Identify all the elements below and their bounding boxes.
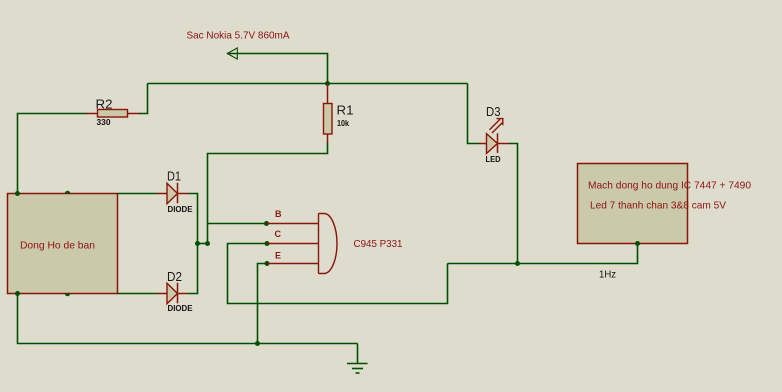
svg-text:D1: D1 bbox=[167, 169, 181, 184]
resistor R2 bbox=[86, 97, 140, 128]
wire R2 left to left rail bbox=[18, 114, 87, 193]
wire bridge to diode column bbox=[198, 243, 208, 245]
ground bbox=[347, 344, 368, 374]
svg-text:B: B bbox=[275, 209, 282, 219]
node B junction bbox=[264, 221, 269, 226]
svg-text:R1: R1 bbox=[337, 103, 354, 118]
node C junction bbox=[265, 241, 270, 246]
node box pin bottom-mid bbox=[65, 294, 70, 297]
wire top rail bbox=[148, 83, 468, 85]
svg-text:10k: 10k bbox=[337, 118, 349, 128]
transistor U1 C945 P331 bbox=[267, 209, 403, 274]
node junction top rail / R1 bbox=[325, 81, 330, 86]
led D3 bbox=[479, 104, 509, 164]
svg-text:Dong Ho de ban: Dong Ho de ban bbox=[20, 240, 95, 252]
wire box to D2 anode bbox=[118, 293, 158, 295]
svg-text:C: C bbox=[275, 229, 282, 239]
node box pin bottom bbox=[635, 241, 640, 246]
svg-text:Mach dong ho dung IC 7447 + 74: Mach dong ho dung IC 7447 + 7490 bbox=[588, 180, 751, 192]
svg-text:Sac Nokia 5.7V 860mA: Sac Nokia 5.7V 860mA bbox=[187, 30, 290, 42]
wire 1Hz net bbox=[448, 244, 638, 264]
resistor R1 bbox=[324, 84, 354, 144]
wire B branch bbox=[208, 223, 267, 225]
subcircuit box Mach dong ho bbox=[578, 164, 752, 244]
svg-text:330: 330 bbox=[97, 117, 111, 127]
wire D3 feed from top rail bbox=[468, 84, 480, 144]
node bridge right bbox=[205, 241, 210, 246]
svg-text:E: E bbox=[275, 251, 281, 261]
svg-text:1Hz: 1Hz bbox=[599, 270, 616, 281]
wire E to bottom rail bbox=[258, 264, 268, 344]
wire C net from gate to rail-303 bbox=[228, 244, 448, 304]
wire arrow to R1 top bbox=[227, 54, 328, 84]
wire D3 cathode down to 1Hz net bbox=[509, 144, 518, 264]
node E junction bbox=[265, 261, 270, 266]
wire box to D1 anode bbox=[118, 193, 158, 195]
svg-text:Led 7 thanh chan 3&8 cam 5V: Led 7 thanh chan 3&8 cam 5V bbox=[590, 200, 726, 212]
diode D1 bbox=[157, 169, 193, 215]
subcircuit box Dong Ho de ban bbox=[8, 194, 118, 294]
svg-text:C945 P331: C945 P331 bbox=[354, 238, 403, 250]
wire left rail bottom bbox=[18, 294, 358, 344]
svg-text:D2: D2 bbox=[167, 269, 182, 284]
wire top rail down to R2 right bbox=[139, 84, 148, 114]
node VCC terminal arrow bbox=[227, 48, 237, 59]
wire D1 cathode down to D2 cathode bbox=[189, 194, 198, 294]
node box pin top-mid bbox=[65, 191, 70, 194]
node box pin top-left bbox=[15, 191, 20, 196]
node box pin bottom-left bbox=[15, 291, 20, 296]
svg-text:R2: R2 bbox=[96, 97, 113, 112]
node LED/1Hz junction bbox=[515, 261, 520, 266]
svg-text:DIODE: DIODE bbox=[168, 204, 193, 214]
node bridge left bbox=[195, 241, 200, 246]
diode D2 bbox=[157, 269, 193, 313]
svg-text:D3: D3 bbox=[486, 104, 501, 119]
svg-text:DIODE: DIODE bbox=[168, 303, 193, 313]
node bottom rail / E column bbox=[255, 341, 260, 346]
svg-text:LED: LED bbox=[486, 154, 501, 164]
wire R1 bottom to B column bbox=[208, 143, 328, 244]
